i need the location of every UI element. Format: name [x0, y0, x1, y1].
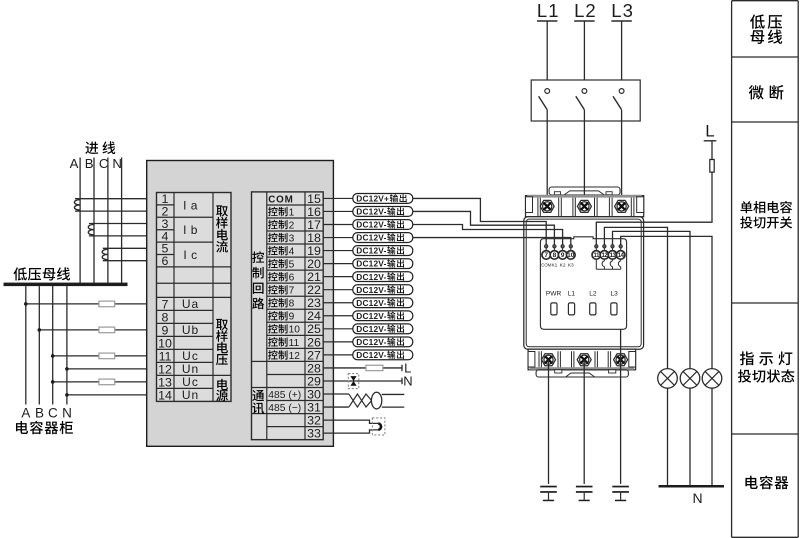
wire breaker pole 1 to switch input — [546, 110, 548, 207]
svg-text:5: 5 — [289, 260, 295, 271]
legend label 低压母线 — [750, 14, 782, 43]
wire lamp2 from terminal 13 — [613, 231, 691, 368]
output lug DC12V+输出 (terminal 15) — [353, 194, 413, 204]
breaker pole 2 switch contact — [576, 89, 587, 110]
category label 控制回路 — [252, 251, 264, 309]
svg-text:9: 9 — [162, 323, 169, 337]
terminal numbers 1-14 — [158, 192, 172, 402]
svg-text:15: 15 — [307, 192, 321, 206]
wire stub terminal 23 — [323, 302, 353, 304]
wire feeder C to capacitor cabinet — [52, 286, 54, 404]
wire voltage tap to Un supply terminal 14 — [67, 394, 157, 396]
output lug DC12V-输出 (terminal 23) — [353, 298, 413, 308]
capacitor C1 — [540, 486, 557, 502]
svg-text:B: B — [35, 406, 44, 421]
svg-text:33: 33 — [307, 427, 321, 441]
svg-text:10: 10 — [567, 252, 575, 259]
svg-text:Ua: Ua — [182, 297, 199, 311]
wire lamp HL3 to N bus — [711, 388, 713, 485]
output lug DC12V-输出 (terminal 24) — [353, 311, 413, 321]
numbered terminals 7-10 COM K1 K2 K3 — [542, 251, 575, 260]
controller box (power factor controller) — [147, 161, 334, 447]
output lug DC12V-输出 (terminal 17) — [353, 220, 413, 230]
output lug DC12V-输出 (terminal 20) — [353, 259, 413, 269]
switch top terminal strip with screws L1 L2 L3 — [526, 195, 644, 217]
svg-text:Uc: Uc — [182, 375, 199, 389]
low-voltage busbar 低压母线 — [4, 267, 128, 286]
current transformer CT-C on phase C — [102, 249, 108, 259]
wire lamp1 from terminal 12 — [604, 227, 667, 368]
svg-text:DC12V+: DC12V+ — [356, 194, 389, 204]
wire phase C incoming — [107, 158, 109, 283]
svg-text:L1: L1 — [568, 291, 576, 298]
svg-text:11: 11 — [159, 349, 172, 363]
indicator lamp HL2 — [680, 369, 700, 389]
indicator lamp HL1 — [658, 369, 678, 389]
label L (fused live for lamps) — [704, 122, 717, 141]
svg-text:22: 22 — [307, 283, 321, 297]
svg-text:L3: L3 — [611, 291, 619, 298]
wire stub terminal 22 — [323, 289, 353, 291]
svg-text:N: N — [692, 490, 702, 506]
legend label 指示灯投切状态 — [738, 351, 794, 382]
category label 电源 — [216, 379, 228, 402]
capacitor cabinet labels A B C N — [21, 406, 71, 421]
svg-text:I c: I c — [183, 248, 197, 262]
labels L1 L2 L3 (phases) — [537, 0, 634, 21]
node junction on feeder at y=394.9 — [65, 393, 69, 397]
wire stub terminal 27 — [323, 354, 353, 356]
wire switch output 3 to capacitor C3 — [620, 329, 622, 484]
svg-text:18: 18 — [307, 231, 321, 245]
wire lamp3 from terminal 14 — [621, 236, 712, 368]
wire voltage tap to Uc supply terminal 13 — [53, 381, 157, 383]
wire terminal 29 to mains N with surge arrester — [323, 380, 402, 382]
wire CT-B leads to terminals 3,4 — [89, 224, 157, 236]
fuse FU on lamp supply L — [710, 160, 714, 173]
terminal tick and label N (supply) — [402, 374, 413, 389]
svg-text:13: 13 — [158, 375, 172, 389]
wire terminals 30/31 RS485 twisted pair — [323, 394, 371, 407]
output lug DC12V-输出 (terminal 22) — [353, 285, 413, 295]
svg-text:30: 30 — [307, 387, 321, 401]
wire CT-A leads to terminals 1,2 — [75, 199, 157, 211]
current transformer CT-A on phase A — [74, 200, 80, 210]
svg-text:C: C — [48, 406, 58, 421]
svg-text:9: 9 — [561, 252, 565, 259]
svg-text:DC12V-: DC12V- — [356, 272, 386, 282]
labels COM K1 K2 K3 — [541, 262, 574, 268]
wire phase A incoming — [79, 158, 81, 283]
legend label 单相电容投切开关 — [740, 201, 792, 229]
LED labels PWR L1 L2 L3 — [546, 291, 618, 298]
svg-text:32: 32 — [307, 414, 321, 428]
capacitor C3 — [612, 486, 629, 502]
svg-text:4: 4 — [289, 246, 295, 257]
svg-text:7: 7 — [289, 286, 295, 297]
wire stub terminal 19 — [323, 250, 353, 252]
wire voltage tap to Ua terminal 7 — [26, 303, 157, 305]
wire stub terminal 26 — [323, 341, 353, 343]
switch bottom terminal strip with screws — [528, 349, 636, 370]
svg-text:3: 3 — [289, 233, 295, 244]
wire lamp HL2 to N bus — [689, 388, 691, 485]
svg-text:10: 10 — [289, 325, 301, 336]
LED windows — [551, 303, 617, 315]
shorting plug (D-link) on terminals 32/33 — [372, 418, 385, 435]
fuse FU on terminal 28 line — [366, 365, 383, 370]
svg-text:DC12V-: DC12V- — [356, 259, 386, 269]
wire neutral N incoming — [121, 158, 123, 283]
label capacitor cabinet 电容器柜 — [16, 421, 73, 434]
label incoming line 进线 — [85, 141, 115, 154]
svg-text:17: 17 — [307, 218, 321, 232]
wire output 17 to switch terminal 9 K2 — [413, 225, 563, 245]
indicator lamp HL3 — [702, 369, 722, 389]
svg-text:L3: L3 — [611, 0, 634, 21]
svg-text:N: N — [62, 406, 72, 421]
controller right terminal block (terminals 15-33) — [252, 192, 324, 440]
wire switch output 1 to capacitor C1 — [548, 360, 550, 484]
fuse FU on tap y=329.9 — [99, 327, 115, 333]
svg-text:L2: L2 — [574, 0, 597, 21]
lamp contact hooks and common bar — [596, 259, 620, 269]
wire lamp HL1 to N bus — [667, 388, 669, 485]
category label 通讯 — [252, 390, 264, 414]
svg-text:19: 19 — [307, 244, 321, 258]
labels COM and 控制1-12 (control outputs) — [268, 194, 300, 361]
shielded cable end (ellipse) — [371, 392, 404, 409]
output lug DC12V-输出 (terminal 27) — [353, 350, 413, 360]
svg-text:8: 8 — [289, 299, 295, 310]
svg-text:21: 21 — [307, 270, 321, 284]
svg-text:6: 6 — [162, 254, 169, 268]
wire CT-C leads to terminals 5,6 — [103, 248, 157, 260]
node junction on feeder at y=355.9 — [51, 354, 55, 358]
wire stub terminal 18 — [323, 237, 353, 239]
svg-text:DC12V-: DC12V- — [356, 337, 386, 347]
svg-text:K3: K3 — [568, 262, 574, 268]
phase labels A B C N (incoming) — [70, 156, 122, 171]
wire feeder A to capacitor cabinet — [25, 286, 27, 404]
wire COM+ output 15 to switch terminal 7 COM — [413, 198, 546, 244]
svg-text:16: 16 — [307, 205, 321, 219]
svg-text:COM: COM — [541, 262, 551, 267]
svg-text:14: 14 — [158, 388, 172, 402]
svg-text:25: 25 — [307, 322, 321, 336]
svg-text:31: 31 — [307, 400, 321, 414]
wire output 16 to switch terminal 8 K1 — [413, 211, 555, 244]
svg-text:8: 8 — [553, 252, 557, 259]
neutral bus bar N — [659, 485, 725, 506]
fuse FU on tap y=381.9 — [99, 379, 115, 385]
surge arrester (hourglass) on terminal 29 line — [348, 374, 359, 389]
current transformer CT-B on phase B — [88, 225, 94, 235]
output lug DC12V-输出 (terminal 26) — [353, 337, 413, 347]
wire stub terminal 15 — [323, 197, 353, 199]
node junction on feeder at y=381.9 — [51, 380, 55, 384]
wire breaker pole 2 to switch input — [583, 110, 585, 207]
svg-text:I b: I b — [183, 223, 198, 237]
category label 取样电压 — [216, 319, 228, 365]
controller left terminal block (terminals 1-14) — [157, 193, 232, 402]
svg-text:DC12V-: DC12V- — [356, 350, 386, 360]
svg-text:A: A — [21, 406, 30, 421]
labels Ua Ub Uc Un (sampling voltage + supply) — [182, 297, 199, 402]
wire stub terminal 16 — [323, 210, 353, 212]
switch bottom cap — [536, 370, 628, 377]
labels Ia Ib Ic (sampling current inputs) — [183, 198, 198, 262]
svg-text:COM: COM — [268, 194, 293, 205]
phase label underlines — [537, 20, 632, 22]
svg-text:485 (+): 485 (+) — [268, 390, 301, 401]
numbered terminals 11-14 lamp outputs — [592, 251, 625, 260]
svg-text:DC12V-: DC12V- — [356, 324, 386, 334]
wire output 18 to switch terminal 10 K3 — [413, 238, 571, 245]
terminal tick and label L (supply) — [402, 361, 411, 376]
switch inner panel — [540, 237, 626, 329]
svg-text:DC12V-: DC12V- — [356, 220, 386, 230]
fuse FU on tap y=355.9 — [99, 353, 115, 359]
breaker pole 3 switch contact — [613, 89, 624, 110]
svg-text:9: 9 — [289, 312, 295, 323]
output lug DC12V-输出 (terminal 16) — [353, 207, 413, 217]
svg-text:DC12V-: DC12V- — [356, 311, 386, 321]
svg-text:Ub: Ub — [182, 323, 199, 337]
wire fuse to switch terminal 11 — [596, 172, 712, 245]
wire L2 from label to breaker — [583, 21, 585, 88]
wire stub terminal 21 — [323, 276, 353, 278]
output lug DC12V-输出 (terminal 25) — [353, 324, 413, 334]
switch control terminal pins — [545, 245, 623, 251]
legend label 微断 — [749, 85, 784, 100]
svg-text:12: 12 — [289, 351, 301, 362]
svg-text:N: N — [112, 156, 122, 171]
svg-text:485 (−): 485 (−) — [268, 403, 301, 414]
svg-text:DC12V-: DC12V- — [356, 233, 386, 243]
wire terminals 32/33 to shorting plug — [323, 420, 378, 433]
fuse FU on tap y=303.9 — [99, 301, 115, 307]
wire voltage tap to Ub terminal 9 — [39, 329, 156, 331]
wire stub terminal 24 — [323, 315, 353, 317]
wire phase B incoming — [93, 158, 95, 283]
wire feeder N to capacitor cabinet — [66, 286, 68, 404]
svg-text:7: 7 — [162, 297, 169, 311]
svg-text:28: 28 — [307, 361, 321, 375]
wire breaker pole 3 to switch input — [621, 110, 623, 207]
wire terminal 28 to mains L with fuse — [323, 367, 402, 369]
svg-text:K1: K1 — [551, 262, 557, 268]
wire stub terminal 25 — [323, 328, 353, 330]
svg-text:26: 26 — [307, 335, 321, 349]
svg-text:10: 10 — [158, 336, 172, 350]
wire voltage tap to Uc terminal 11 — [53, 355, 157, 357]
wire feeder B to capacitor cabinet — [38, 286, 40, 404]
capacitor C2 — [576, 486, 593, 502]
svg-text:1: 1 — [289, 207, 295, 218]
switch main body (单相电容投切开关) — [524, 217, 644, 350]
svg-text:8: 8 — [162, 310, 169, 324]
svg-text:PWR: PWR — [546, 291, 562, 298]
labels 485(+) 485(-) RS485 communication — [268, 390, 301, 414]
output lug DC12V-输出 (terminal 21) — [353, 272, 413, 282]
category label 取样电流 — [216, 205, 228, 252]
output lug DC12V-输出 (terminal 19) — [353, 246, 413, 256]
svg-text:Uc: Uc — [182, 349, 199, 363]
output lug DC12V-输出 (terminal 18) — [353, 233, 413, 243]
svg-text:11: 11 — [289, 338, 300, 349]
legend label 电容器 — [745, 476, 788, 490]
wire L to fuse — [711, 141, 713, 160]
node junction on feeder at y=329.9 — [38, 328, 42, 332]
svg-text:N: N — [403, 374, 412, 389]
wire stub terminal 17 — [323, 224, 353, 226]
svg-text:A: A — [70, 156, 79, 171]
svg-text:DC12V-: DC12V- — [356, 246, 386, 256]
svg-text:I a: I a — [183, 198, 198, 212]
svg-text:Un: Un — [182, 388, 199, 402]
svg-text:L: L — [705, 122, 714, 141]
svg-text:20: 20 — [307, 257, 321, 271]
wire L1 from label to breaker — [546, 21, 548, 88]
node junction on feeder at y=303.9 — [24, 302, 28, 306]
svg-text:DC12V-: DC12V- — [356, 207, 386, 217]
svg-text:27: 27 — [307, 348, 321, 362]
wire stub terminal 20 — [323, 263, 353, 265]
svg-text:23: 23 — [307, 296, 321, 310]
svg-text:2: 2 — [289, 220, 295, 231]
legend table frame — [732, 1, 799, 538]
svg-text:L2: L2 — [589, 291, 597, 298]
svg-text:12: 12 — [158, 362, 172, 376]
svg-text:29: 29 — [307, 374, 321, 388]
svg-text:L1: L1 — [537, 0, 560, 21]
svg-text:DC12V-: DC12V- — [356, 285, 386, 295]
terminal numbers 15-33 — [307, 192, 321, 441]
svg-text:DC12V-: DC12V- — [356, 298, 386, 308]
circuit breaker QF (micro-break) box — [531, 80, 640, 121]
svg-text:Un: Un — [182, 362, 199, 376]
svg-text:7: 7 — [544, 252, 548, 259]
wire voltage tap to Un terminal 12 — [67, 368, 157, 370]
breaker pole 1 switch contact — [539, 89, 550, 110]
svg-text:B: B — [85, 156, 94, 171]
wire L3 from label to breaker — [621, 21, 623, 88]
wire switch output 2 to capacitor C2 — [583, 360, 585, 484]
svg-text:6: 6 — [289, 273, 295, 284]
switch top cap — [549, 187, 620, 195]
node junction on feeder at y=368.9 — [65, 367, 69, 371]
svg-text:24: 24 — [307, 309, 321, 323]
svg-text:K2: K2 — [560, 262, 566, 268]
